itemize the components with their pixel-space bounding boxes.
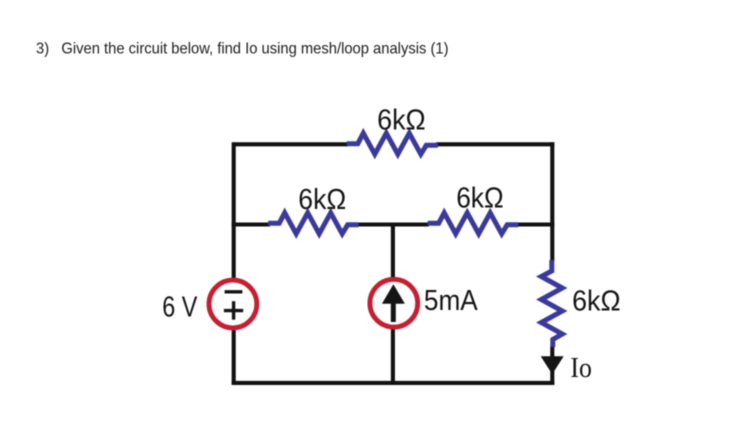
svg-text:6kΩ: 6kΩ <box>377 105 426 137</box>
wire: center vertical upper (node B to current source) <box>391 223 395 281</box>
svg-text:5mA: 5mA <box>424 285 478 317</box>
resistor R1 6k ohm (top) <box>347 133 438 154</box>
svg-text:6kΩ: 6kΩ <box>572 286 621 318</box>
current source I1 arrow shaft <box>391 302 396 322</box>
wire: left vertical lower <box>232 327 236 385</box>
Io output arrow head <box>541 356 564 374</box>
svg-text:6kΩ: 6kΩ <box>456 183 503 215</box>
current source I1 circle <box>370 279 418 327</box>
svg-text:6 V: 6 V <box>162 292 198 324</box>
wire: top rail right segment <box>436 142 554 146</box>
current source I1 arrow head <box>382 284 405 304</box>
wire: middle rail, left of R2 <box>232 222 270 226</box>
svg-text:Io: Io <box>570 352 592 384</box>
wire: right vertical upper <box>550 142 554 261</box>
wire: center vertical lower (current source to bottom rail) <box>391 326 395 385</box>
resistor R3 6k ohm (middle right) <box>428 213 519 234</box>
voltage source V1 circle <box>209 280 257 328</box>
voltage source V1 plus sign <box>224 301 243 320</box>
wire: middle rail, R2 to R3 through node B <box>357 222 429 226</box>
wire: right vertical lower (through Io arrow) <box>550 346 554 384</box>
resistor R4 6k ohm (right vertical) <box>541 260 562 347</box>
svg-text:6kΩ: 6kΩ <box>298 184 346 216</box>
resistor R2 6k ohm (middle left) <box>268 213 358 234</box>
wire: middle rail, right of R3 <box>517 222 554 226</box>
svg-text:3) Given the circuit below,: 3) Given the circuit below, find Io usin… <box>36 41 449 58</box>
wire: top rail left segment <box>234 142 348 146</box>
wire: left vertical upper <box>232 142 236 281</box>
voltage source V1 minus sign <box>225 290 243 293</box>
wire: bottom rail <box>232 381 555 385</box>
